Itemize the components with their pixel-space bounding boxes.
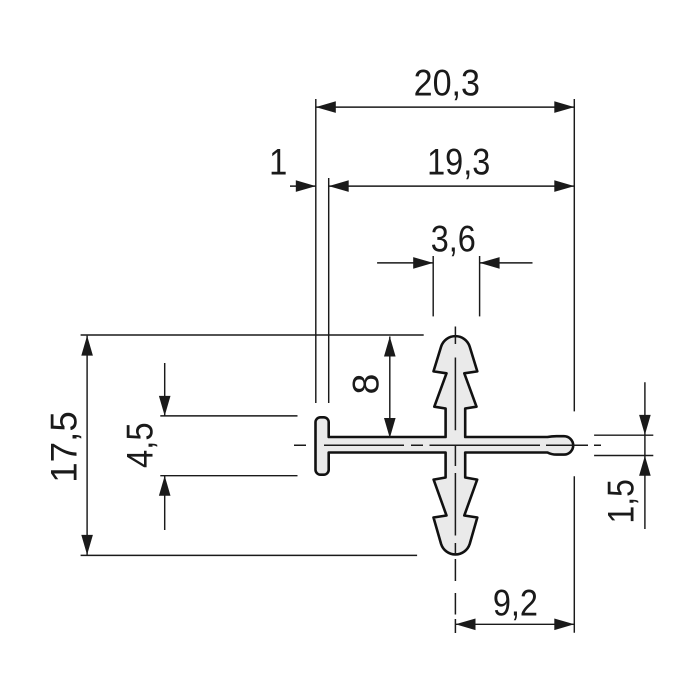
- arrowheads: [81, 101, 650, 630]
- dimension line 3,6: [377, 262, 532, 264]
- 1 (outside, pointing right): [296, 180, 316, 192]
- 1,5 outside arrows: [639, 415, 651, 435]
- svg-text:20,3: 20,3: [414, 62, 480, 104]
- 8: [384, 337, 396, 357]
- extension lines 1,5: [594, 434, 653, 436]
- 20,3: [316, 101, 336, 113]
- dimension line 9,2: [456, 623, 575, 625]
- dimension line 1,5: [644, 382, 646, 529]
- dimension line 17,5: [86, 336, 88, 555]
- svg-text:9,2: 9,2: [493, 582, 538, 624]
- center lines: [294, 327, 601, 634]
- dimension line 8: [389, 337, 391, 439]
- extension line right of T-head: [328, 178, 330, 403]
- svg-text:3,6: 3,6: [431, 218, 476, 260]
- extension line bottom of profile: [81, 554, 418, 556]
- extension lines 3,6: [432, 256, 434, 316]
- svg-text:1,5: 1,5: [600, 479, 642, 523]
- 19,3: [329, 180, 349, 192]
- extension lines: [81, 99, 654, 633]
- dimension line 19,3: [329, 185, 575, 187]
- 9,2: [456, 619, 476, 631]
- dimension line 20,3: [316, 106, 575, 108]
- dimension texts: [42, 62, 642, 624]
- svg-text:1: 1: [269, 141, 287, 183]
- dimension line 1: [290, 185, 316, 187]
- dimension line 4,5: [164, 363, 166, 530]
- svg-text:4,5: 4,5: [120, 422, 162, 468]
- svg-text:17,5: 17,5: [42, 411, 84, 483]
- profile cross-section (glazing gasket): [316, 336, 574, 554]
- dimension lines: [87, 107, 645, 624]
- svg-text:19,3: 19,3: [427, 141, 490, 183]
- extension lines 4,5: [160, 415, 297, 417]
- extension line right edge of profile: [573, 99, 575, 633]
- 17,5: [81, 336, 93, 356]
- svg-text:8: 8: [344, 374, 386, 395]
- vertical center line: [454, 327, 456, 634]
- 3,6 outside arrows: [413, 257, 433, 269]
- horizontal center line: [294, 444, 601, 446]
- extension line top of profile: [81, 334, 424, 336]
- extension line left of T-head: [315, 99, 317, 403]
- 4,5 outside arrows: [159, 396, 171, 416]
